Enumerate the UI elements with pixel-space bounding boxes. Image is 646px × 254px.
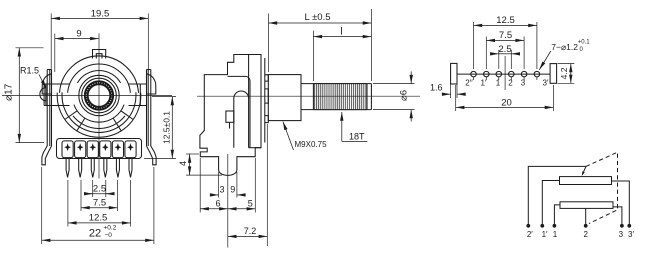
svg-text:7.2: 7.2: [244, 226, 257, 236]
svg-text:20: 20: [501, 97, 512, 108]
svg-text:M9X0.75: M9X0.75: [295, 140, 328, 149]
svg-text:7.5: 7.5: [499, 30, 512, 41]
svg-text:7−⌀1.2: 7−⌀1.2: [551, 42, 578, 52]
svg-text:4: 4: [178, 161, 188, 166]
svg-text:2.5: 2.5: [93, 183, 106, 194]
svg-text:+0.1: +0.1: [578, 40, 591, 46]
svg-text:1′: 1′: [481, 79, 487, 88]
svg-text:L ±0.5: L ±0.5: [305, 12, 331, 23]
svg-text:12.5±0.1: 12.5±0.1: [161, 111, 171, 144]
svg-text:12.5: 12.5: [89, 213, 108, 224]
svg-text:9: 9: [230, 185, 235, 195]
svg-text:R1.5: R1.5: [20, 66, 39, 76]
svg-text:+0.2: +0.2: [104, 224, 117, 231]
svg-text:9: 9: [76, 29, 81, 40]
svg-text:3: 3: [521, 79, 526, 88]
svg-text:−0: −0: [105, 232, 113, 239]
svg-text:6: 6: [215, 198, 220, 208]
svg-text:2: 2: [583, 230, 588, 239]
svg-text:2′: 2′: [527, 230, 533, 239]
svg-text:2.5: 2.5: [498, 44, 511, 55]
svg-text:1: 1: [496, 79, 501, 88]
svg-text:22: 22: [89, 227, 101, 239]
svg-text:2: 2: [508, 79, 513, 88]
svg-text:2′′: 2′′: [465, 79, 473, 88]
svg-text:⌀6: ⌀6: [399, 90, 410, 101]
svg-text:12.5: 12.5: [496, 15, 515, 26]
svg-text:3′: 3′: [628, 230, 634, 239]
svg-text:3: 3: [619, 230, 624, 239]
svg-text:1: 1: [553, 230, 558, 239]
svg-text:3′: 3′: [543, 79, 549, 88]
svg-text:l: l: [340, 26, 342, 37]
svg-text:18T: 18T: [349, 132, 365, 142]
svg-text:1′: 1′: [542, 230, 548, 239]
svg-text:19.5: 19.5: [91, 9, 110, 20]
svg-text:3: 3: [219, 185, 224, 195]
svg-text:4.2: 4.2: [559, 67, 569, 79]
svg-text:1.6: 1.6: [430, 82, 443, 92]
svg-text:5: 5: [248, 198, 253, 208]
svg-text:⌀17: ⌀17: [4, 83, 15, 101]
svg-text:7.5: 7.5: [93, 197, 106, 208]
